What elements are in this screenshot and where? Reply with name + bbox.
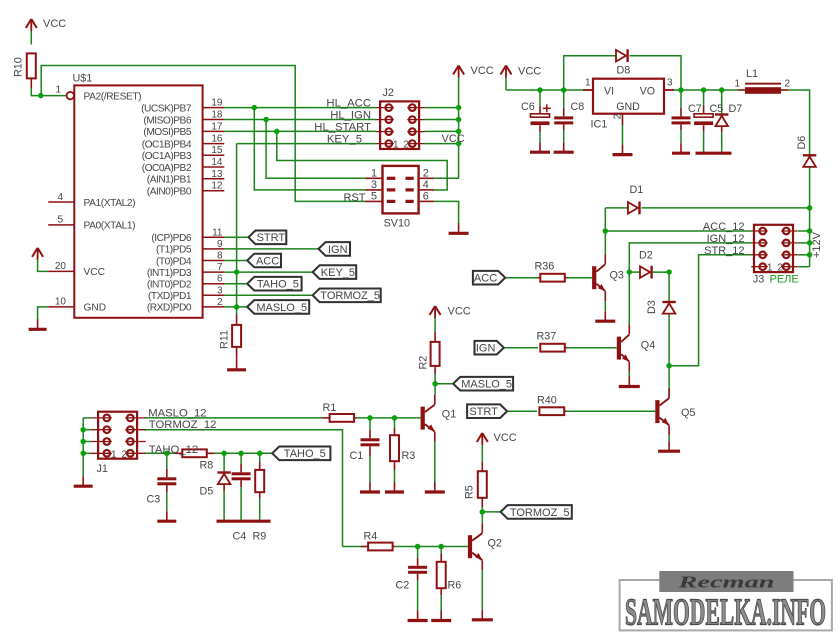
svg-text:16: 16 xyxy=(211,134,223,145)
svg-text:PA2(/RESET): PA2(/RESET) xyxy=(84,91,142,102)
svg-text:19: 19 xyxy=(211,98,223,109)
svg-text:10: 10 xyxy=(55,297,67,308)
svg-text:1: 1 xyxy=(393,140,399,151)
svg-text:7: 7 xyxy=(217,262,223,273)
svg-text:VCC: VCC xyxy=(43,18,66,30)
svg-text:L1: L1 xyxy=(746,68,758,80)
svg-text:VCC: VCC xyxy=(471,65,494,77)
svg-text:2: 2 xyxy=(121,449,127,460)
svg-text:(OC1B)PB4: (OC1B)PB4 xyxy=(142,139,192,150)
svg-text:ACC_12: ACC_12 xyxy=(703,221,745,233)
svg-text:J3: J3 xyxy=(753,274,764,286)
svg-text:D6: D6 xyxy=(796,136,808,150)
svg-text:KEY_5: KEY_5 xyxy=(327,134,362,146)
svg-text:Q5: Q5 xyxy=(681,407,695,419)
svg-text:18: 18 xyxy=(211,110,223,121)
svg-text:5: 5 xyxy=(371,191,377,203)
svg-text:3: 3 xyxy=(217,285,223,296)
svg-text:4: 4 xyxy=(57,192,63,203)
svg-text:Q3: Q3 xyxy=(610,269,624,281)
svg-text:(UCSK)PB7: (UCSK)PB7 xyxy=(141,103,192,114)
svg-text:D7: D7 xyxy=(729,103,743,115)
svg-text:PA1(XTAL2): PA1(XTAL2) xyxy=(84,198,136,209)
svg-text:GND: GND xyxy=(616,101,640,113)
svg-text:2: 2 xyxy=(217,297,223,308)
svg-text:D1: D1 xyxy=(630,184,644,196)
svg-text:(T1)PD5: (T1)PD5 xyxy=(156,245,192,256)
svg-text:(OC1A)PB3: (OC1A)PB3 xyxy=(142,151,192,162)
svg-text:C2: C2 xyxy=(396,580,410,592)
svg-text:2: 2 xyxy=(423,168,429,180)
svg-text:R9: R9 xyxy=(253,530,267,542)
svg-text:VCC: VCC xyxy=(442,133,465,145)
svg-text:15: 15 xyxy=(211,145,223,156)
svg-text:R4: R4 xyxy=(364,531,378,543)
svg-text:R3: R3 xyxy=(402,450,416,462)
svg-text:9: 9 xyxy=(217,239,223,250)
svg-text:TAHO_12: TAHO_12 xyxy=(149,444,198,456)
svg-text:11: 11 xyxy=(212,227,223,238)
svg-text:MASLO_12: MASLO_12 xyxy=(148,407,206,419)
svg-text:KEY_5: KEY_5 xyxy=(321,267,355,279)
svg-text:2: 2 xyxy=(613,113,624,119)
svg-text:VCC: VCC xyxy=(494,432,517,444)
svg-text:2: 2 xyxy=(777,263,783,274)
svg-text:РЕЛЕ: РЕЛЕ xyxy=(770,274,799,286)
svg-text:1: 1 xyxy=(734,78,740,89)
svg-text:Q1: Q1 xyxy=(442,409,456,421)
svg-text:VCC: VCC xyxy=(518,66,541,78)
svg-text:Q4: Q4 xyxy=(641,340,655,352)
svg-text:1: 1 xyxy=(55,85,61,96)
svg-text:C5: C5 xyxy=(710,103,724,115)
svg-text:(RXD)PD0: (RXD)PD0 xyxy=(147,303,192,314)
svg-text:VCC: VCC xyxy=(84,267,106,278)
svg-text:(MOSI)PB5: (MOSI)PB5 xyxy=(143,127,191,138)
svg-text:(AIN1)PB1: (AIN1)PB1 xyxy=(147,175,192,186)
svg-text:VI: VI xyxy=(604,86,614,98)
svg-text:R6: R6 xyxy=(448,580,462,592)
svg-text:C1: C1 xyxy=(350,450,364,462)
svg-text:R37: R37 xyxy=(537,331,557,343)
svg-text:(ICP)PD6: (ICP)PD6 xyxy=(151,233,191,244)
svg-text:GND: GND xyxy=(84,303,107,314)
svg-text:ACC: ACC xyxy=(474,273,497,285)
svg-text:J2: J2 xyxy=(383,87,394,99)
svg-text:R1: R1 xyxy=(323,402,337,414)
svg-text:VO: VO xyxy=(640,86,655,98)
svg-text:C8: C8 xyxy=(571,101,585,113)
svg-text:STRT: STRT xyxy=(257,232,286,244)
svg-text:HL_IGN: HL_IGN xyxy=(330,110,371,122)
svg-text:2: 2 xyxy=(785,78,791,89)
svg-text:C6: C6 xyxy=(521,101,535,113)
svg-text:MASLO_5: MASLO_5 xyxy=(461,379,512,391)
svg-text:17: 17 xyxy=(211,121,223,132)
svg-text:1: 1 xyxy=(767,263,773,274)
svg-text:(INT0)PD2: (INT0)PD2 xyxy=(147,280,192,291)
svg-text:C4: C4 xyxy=(233,530,247,542)
svg-text:5: 5 xyxy=(57,215,63,226)
svg-text:6: 6 xyxy=(217,274,223,285)
svg-text:PA0(XTAL1): PA0(XTAL1) xyxy=(84,221,136,232)
svg-text:SAMODELKA.INFO: SAMODELKA.INFO xyxy=(625,592,826,634)
svg-text:ACC: ACC xyxy=(256,255,279,267)
svg-text:R10: R10 xyxy=(13,57,25,77)
svg-text:(AIN0)PB0: (AIN0)PB0 xyxy=(147,187,192,198)
svg-text:Recman: Recman xyxy=(677,573,775,592)
svg-text:MASLO_5: MASLO_5 xyxy=(256,302,307,314)
svg-text:IGN_12: IGN_12 xyxy=(707,233,745,245)
svg-text:D2: D2 xyxy=(639,250,653,262)
svg-text:8: 8 xyxy=(217,251,223,262)
svg-text:12: 12 xyxy=(211,181,223,192)
svg-text:R36: R36 xyxy=(535,260,555,272)
svg-text:VCC: VCC xyxy=(448,306,471,318)
svg-text:R40: R40 xyxy=(537,394,557,406)
svg-text:R2: R2 xyxy=(418,356,430,370)
svg-text:RST: RST xyxy=(344,192,366,204)
svg-text:IGN: IGN xyxy=(328,244,348,256)
svg-text:HL_START: HL_START xyxy=(314,122,371,134)
svg-text:1: 1 xyxy=(111,449,117,460)
svg-text:TORMOZ_5: TORMOZ_5 xyxy=(510,507,570,519)
svg-text:3: 3 xyxy=(371,179,377,191)
svg-text:20: 20 xyxy=(55,261,67,272)
svg-text:TAHO_5: TAHO_5 xyxy=(257,279,299,291)
svg-text:4: 4 xyxy=(423,179,429,191)
svg-text:(INT1)PD3: (INT1)PD3 xyxy=(147,268,192,279)
svg-text:(T0)PD4: (T0)PD4 xyxy=(156,256,192,267)
svg-text:+12V: +12V xyxy=(811,231,823,258)
svg-text:STRT: STRT xyxy=(469,406,498,418)
svg-text:14: 14 xyxy=(211,157,223,168)
svg-text:C3: C3 xyxy=(147,493,161,505)
svg-text:3: 3 xyxy=(667,78,673,89)
svg-text:SV10: SV10 xyxy=(384,217,410,229)
svg-text:(OC0A)PB2: (OC0A)PB2 xyxy=(142,163,192,174)
svg-text:HL_ACC: HL_ACC xyxy=(326,98,371,110)
svg-text:6: 6 xyxy=(423,191,429,203)
svg-text:D8: D8 xyxy=(617,65,631,77)
svg-text:13: 13 xyxy=(211,169,223,180)
svg-text:1: 1 xyxy=(371,168,377,180)
svg-text:IC1: IC1 xyxy=(591,118,608,130)
svg-text:R5: R5 xyxy=(464,485,476,499)
svg-text:U$1: U$1 xyxy=(73,73,93,85)
svg-text:(TXD)PD1: (TXD)PD1 xyxy=(148,291,192,302)
svg-text:TAHO_5: TAHO_5 xyxy=(284,448,326,460)
svg-text:J1: J1 xyxy=(97,463,108,475)
svg-text:1: 1 xyxy=(585,78,591,89)
svg-text:R11: R11 xyxy=(219,330,231,349)
svg-text:(MISO)PB6: (MISO)PB6 xyxy=(143,115,191,126)
svg-text:Q2: Q2 xyxy=(488,537,502,549)
svg-text:IGN: IGN xyxy=(476,343,496,355)
svg-text:2: 2 xyxy=(403,140,409,151)
svg-text:STR_12: STR_12 xyxy=(704,245,744,257)
svg-text:R8: R8 xyxy=(200,459,214,471)
svg-text:C7: C7 xyxy=(688,103,702,115)
svg-text:D3: D3 xyxy=(646,300,658,314)
svg-text:TORMOZ_5: TORMOZ_5 xyxy=(320,290,380,302)
svg-text:TORMOZ_12: TORMOZ_12 xyxy=(149,419,217,431)
svg-text:D5: D5 xyxy=(200,485,214,497)
